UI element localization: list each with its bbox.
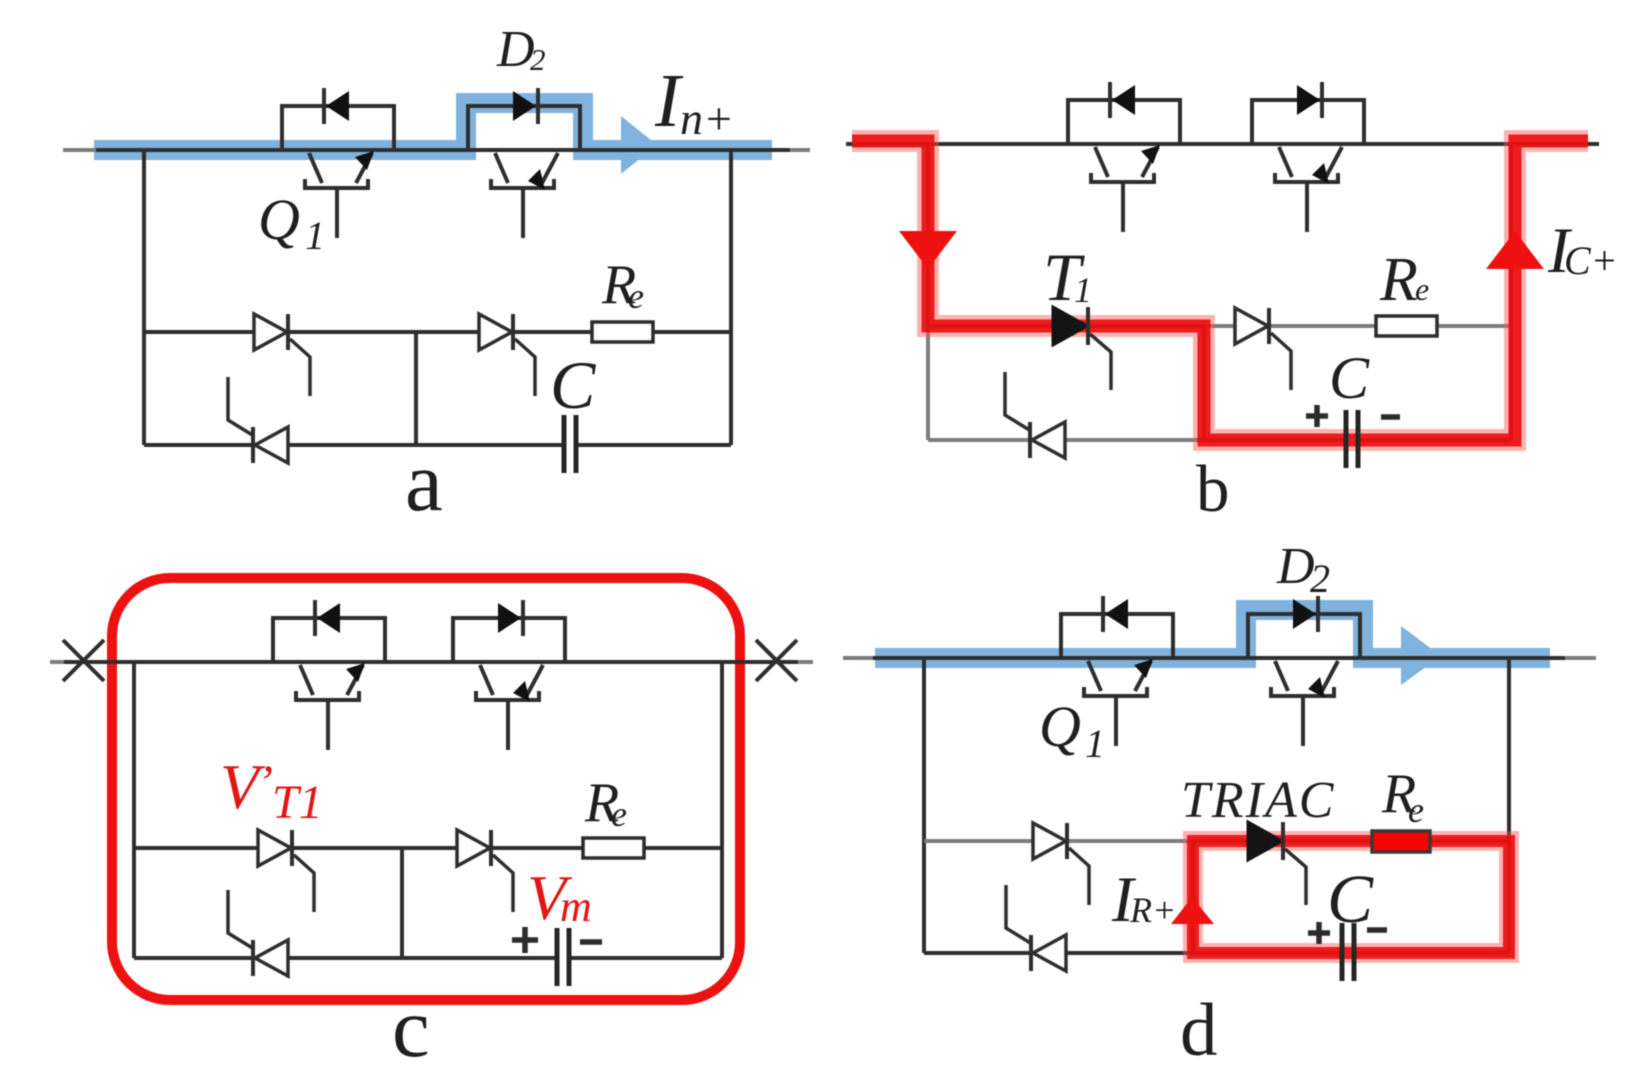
wire junction vertical xyxy=(1202,326,1206,440)
transistor right xyxy=(453,600,565,750)
wire left vertical xyxy=(142,150,146,445)
QUADRANT A xyxy=(63,21,810,529)
current loop IR+ (red core) xyxy=(1193,841,1509,953)
svg-text:1: 1 xyxy=(1085,721,1105,766)
svg-text:1: 1 xyxy=(1074,270,1092,310)
wire middle rail gray xyxy=(924,839,1193,843)
wire right vertical xyxy=(720,662,724,958)
svg-text:e: e xyxy=(628,276,644,316)
svg-text:TRIAC: TRIAC xyxy=(1181,772,1335,829)
wire top rail xyxy=(843,656,1596,660)
wire gray tip right xyxy=(790,148,810,152)
transistor left xyxy=(1068,82,1180,232)
current path IC+ (red halo) xyxy=(852,141,1588,440)
svg-text:e: e xyxy=(611,794,627,834)
capacitor C xyxy=(557,928,569,986)
arrow blue xyxy=(1401,626,1441,685)
diode D2 transistor xyxy=(1248,596,1360,746)
wire bottom rail xyxy=(134,956,722,960)
QUADRANT D xyxy=(843,538,1596,1072)
svg-text:R: R xyxy=(1379,246,1418,314)
svg-text:b: b xyxy=(1196,452,1230,526)
transistor left xyxy=(273,600,385,750)
wire bottom rail xyxy=(144,443,731,447)
label plus xyxy=(1308,922,1330,944)
svg-text:R+: R+ xyxy=(1129,890,1176,930)
current path In+ (blue highlight through D2) xyxy=(94,103,772,150)
svg-text:m: m xyxy=(560,882,592,931)
wire left vertical xyxy=(926,144,930,326)
QUADRANT B xyxy=(846,82,1618,526)
svg-text:n+: n+ xyxy=(680,93,734,144)
wire gray tip left xyxy=(843,656,873,660)
wire middle rail xyxy=(134,846,722,850)
diode D2 transistor xyxy=(468,88,580,238)
transistor right xyxy=(1252,82,1364,232)
current loop IR+ (red halo) xyxy=(1193,841,1509,953)
wire bottom rail xyxy=(924,951,1509,955)
svg-text:D: D xyxy=(1276,538,1315,595)
wire right vertical xyxy=(729,150,733,445)
label plus xyxy=(1306,405,1328,427)
svg-text:C+: C+ xyxy=(1564,238,1618,283)
thyristor bottom xyxy=(228,890,288,976)
wire middle rail highlighted xyxy=(928,324,1204,328)
wire right vertical xyxy=(1507,658,1511,953)
wire left vertical xyxy=(922,658,926,953)
arrow up IC+ xyxy=(1486,231,1544,269)
arrow up IR+ xyxy=(1171,897,1214,924)
thyristor middle-left xyxy=(1033,823,1089,905)
svg-text:2: 2 xyxy=(1310,556,1330,601)
wire gray tip right xyxy=(798,660,813,664)
node X right (disconnected mark) xyxy=(756,640,797,681)
svg-text:’: ’ xyxy=(257,756,273,809)
svg-text:e: e xyxy=(1415,271,1429,307)
wire gray tip left xyxy=(63,148,96,152)
wire junction vertical xyxy=(414,332,418,445)
QUADRANT C xyxy=(50,578,813,1075)
wire right vertical xyxy=(1509,144,1513,440)
wire gray tip left xyxy=(50,660,64,664)
transistor Q1 xyxy=(282,88,394,238)
capacitor C xyxy=(1342,923,1354,981)
label minus xyxy=(580,939,602,945)
wire junction vertical xyxy=(1191,841,1195,953)
resistor Re xyxy=(592,322,653,342)
wire bottom rail highlighted xyxy=(1197,438,1511,442)
thyristor middle-right xyxy=(457,830,513,912)
svg-text:a: a xyxy=(405,435,443,529)
resistor Re xyxy=(1376,316,1437,336)
thyristor middle-right xyxy=(479,314,535,396)
thyristor middle-left xyxy=(254,314,310,396)
thyristor bottom xyxy=(1006,885,1066,971)
thyristor bottom xyxy=(228,377,288,463)
svg-text:C: C xyxy=(1329,345,1370,411)
svg-text:1: 1 xyxy=(305,213,325,258)
resistor Re xyxy=(583,838,644,858)
capacitor C xyxy=(564,415,576,473)
thyristor bottom xyxy=(1005,372,1065,458)
label plus xyxy=(512,927,538,953)
wire gray tip right xyxy=(1565,656,1596,660)
arrow In+ xyxy=(621,116,657,174)
svg-text:e: e xyxy=(1408,790,1424,830)
wire middle rail gray xyxy=(1204,324,1511,328)
wire left vertical xyxy=(132,662,136,958)
thyristor TRIAC (fired) xyxy=(1248,822,1306,905)
svg-text:C: C xyxy=(1327,861,1374,937)
thyristor T1 (fired) xyxy=(1053,307,1111,390)
svg-text:c: c xyxy=(392,981,430,1075)
resistor Re (conducting) xyxy=(1372,831,1430,852)
current path blue (through D2) xyxy=(875,610,1550,658)
svg-text:T1: T1 xyxy=(272,776,323,829)
wire top rail xyxy=(50,660,813,664)
wire middle rail xyxy=(144,330,731,334)
svg-text:D: D xyxy=(496,21,535,78)
thyristor T1 blocking xyxy=(258,830,314,912)
svg-text:Q: Q xyxy=(258,187,300,252)
wire bottom rail gray xyxy=(928,438,1197,442)
arrow down on left branch xyxy=(899,231,957,269)
svg-text:d: d xyxy=(1180,989,1218,1072)
capacitor C xyxy=(1346,410,1358,468)
svg-text:2: 2 xyxy=(530,42,546,77)
thyristor middle-right xyxy=(1235,308,1291,390)
svg-text:C: C xyxy=(550,347,596,423)
current path IC+ (red core) xyxy=(852,141,1588,440)
label minus xyxy=(1367,927,1387,933)
transistor Q1 xyxy=(1061,596,1173,746)
wire junction vertical xyxy=(400,848,404,958)
highlight box (red rounded enclosure) xyxy=(112,578,740,1000)
wire top rail xyxy=(63,148,810,152)
wire top rail xyxy=(846,142,1599,146)
wire middle rail highlighted xyxy=(1193,839,1509,843)
node X left (disconnected mark) xyxy=(63,640,104,681)
svg-text:Q: Q xyxy=(1039,694,1081,759)
label minus xyxy=(1381,414,1400,420)
